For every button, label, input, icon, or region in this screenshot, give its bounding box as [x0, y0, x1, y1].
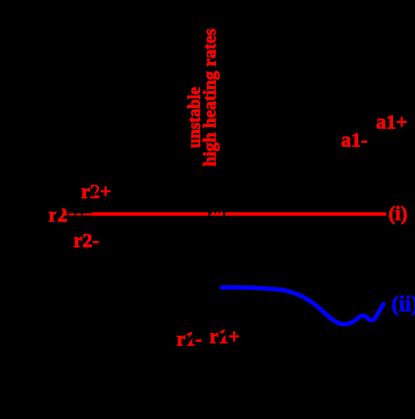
black slash overlap on r2 digit — [55, 208, 61, 222]
black slash overlap on r2+ digit — [90, 186, 98, 198]
red zigzag peaks inside middle cluster — [211, 212, 223, 214]
svg-text:a1+: a1+ — [376, 112, 407, 134]
curve (i): red horizontal line — [92, 212, 386, 215]
svg-text:r1+: r1+ — [210, 326, 240, 348]
curve (ii): blue curve — [222, 287, 384, 324]
svg-text:(ii): (ii) — [392, 291, 415, 316]
svg-text:high heating rates: high heating rates — [200, 29, 220, 167]
svg-text:r2+: r2+ — [81, 181, 111, 203]
black overlap marks on red line (middle cluster) — [208, 211, 225, 216]
black overlap marks on red line (left cluster) — [67, 212, 91, 217]
svg-text:r2-: r2- — [74, 230, 100, 252]
black slash overlap on r1+ digit — [217, 329, 229, 344]
svg-text:a1-: a1- — [341, 130, 368, 152]
black slash overlap on r1- digit — [186, 331, 196, 345]
curve (i): thin left start of red line — [62, 213, 92, 215]
svg-text:(i): (i) — [389, 203, 408, 225]
